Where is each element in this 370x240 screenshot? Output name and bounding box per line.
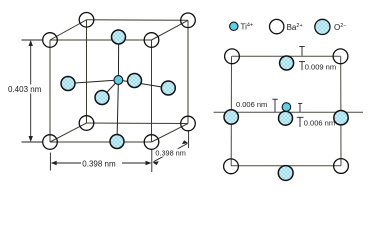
Ba corner bottom-left [224, 159, 239, 174]
displacement mark 0.006 nm (Ti, left) [272, 99, 278, 112]
legend Ba2+ [270, 19, 284, 33]
wire: Ti-O bond up [117, 37, 119, 80]
O front face [95, 91, 109, 105]
dimension 0.403 nm (left) [22, 40, 44, 142]
wire: depth edge top-right [152, 20, 189, 40]
wire: square top edge [232, 55, 341, 57]
wire: Ti-O bond front [102, 80, 118, 98]
svg-text:0.009 nm: 0.009 nm [305, 62, 336, 71]
wire: depth edge bottom-left [50, 123, 87, 142]
Ba corner top-right [333, 49, 348, 64]
wire: front top edge [50, 39, 152, 41]
Ti displaced atom [282, 103, 291, 112]
Ba corner top-left [225, 49, 240, 64]
O face-center atoms [61, 30, 175, 149]
svg-text:0.398 nm: 0.398 nm [155, 149, 185, 158]
O center [279, 111, 293, 125]
svg-text:0.398 nm: 0.398 nm [82, 159, 116, 168]
wire: Ti-O bond right [118, 80, 168, 88]
svg-text:0.403 nm: 0.403 nm [8, 85, 42, 94]
wire: square bottom edge [231, 165, 341, 167]
wire: back top edge [87, 19, 189, 22]
Ba corner bottom-right [334, 159, 349, 174]
svg-text:0.006 nm: 0.006 nm [236, 100, 267, 109]
displacement mark 0.006 nm (O, right) [297, 103, 304, 127]
legend O2- [315, 19, 330, 34]
O right face [161, 81, 175, 95]
wire: Ti-O bond left [68, 80, 118, 84]
Ba corner front-bottom-left [43, 135, 58, 150]
O top [280, 56, 294, 70]
Ba corner back-top-left [79, 12, 94, 27]
wire: front right edge [151, 40, 153, 142]
wire: Ti-O bond down [117, 80, 118, 142]
O left [224, 110, 238, 124]
Ti center atom [114, 76, 123, 85]
O bottom [278, 166, 293, 181]
svg-text:0.006 nm: 0.006 nm [304, 119, 335, 128]
wire: front bottom edge [50, 141, 152, 143]
wire: midplane reference line [214, 111, 363, 113]
O atoms of projection [224, 56, 348, 180]
O left face [61, 77, 75, 91]
Ba corner atoms [43, 12, 196, 149]
Ba corner back-top-right [181, 13, 196, 28]
wire: front left edge [49, 40, 51, 142]
wire: square left edge [230, 56, 232, 166]
Ba corner back-bottom-right [181, 116, 196, 131]
legend Ti4+ [230, 22, 238, 30]
O back face [128, 74, 142, 88]
wire: square right edge [340, 56, 342, 166]
Ba corners of projection [224, 49, 349, 174]
Ba corner front-top-right [144, 33, 159, 48]
wire: depth edge bottom-right [152, 124, 189, 143]
wire: back left edge [86, 20, 88, 123]
dimension 0.398 nm (depth, right) [154, 130, 189, 162]
Ba corner front-top-left [43, 33, 58, 48]
O top face [112, 30, 126, 44]
Ba corner front-bottom-right [144, 135, 159, 150]
Ba corner back-bottom-left [79, 116, 94, 131]
wire: depth edge top-left [50, 20, 87, 40]
O bottom face [110, 135, 124, 149]
wire: back bottom edge [87, 122, 189, 125]
dimension 0.398 nm (bottom) [50, 150, 151, 172]
wire: back right edge [187, 20, 189, 123]
displacement mark 0.009 nm [299, 47, 305, 71]
O right [334, 111, 348, 125]
